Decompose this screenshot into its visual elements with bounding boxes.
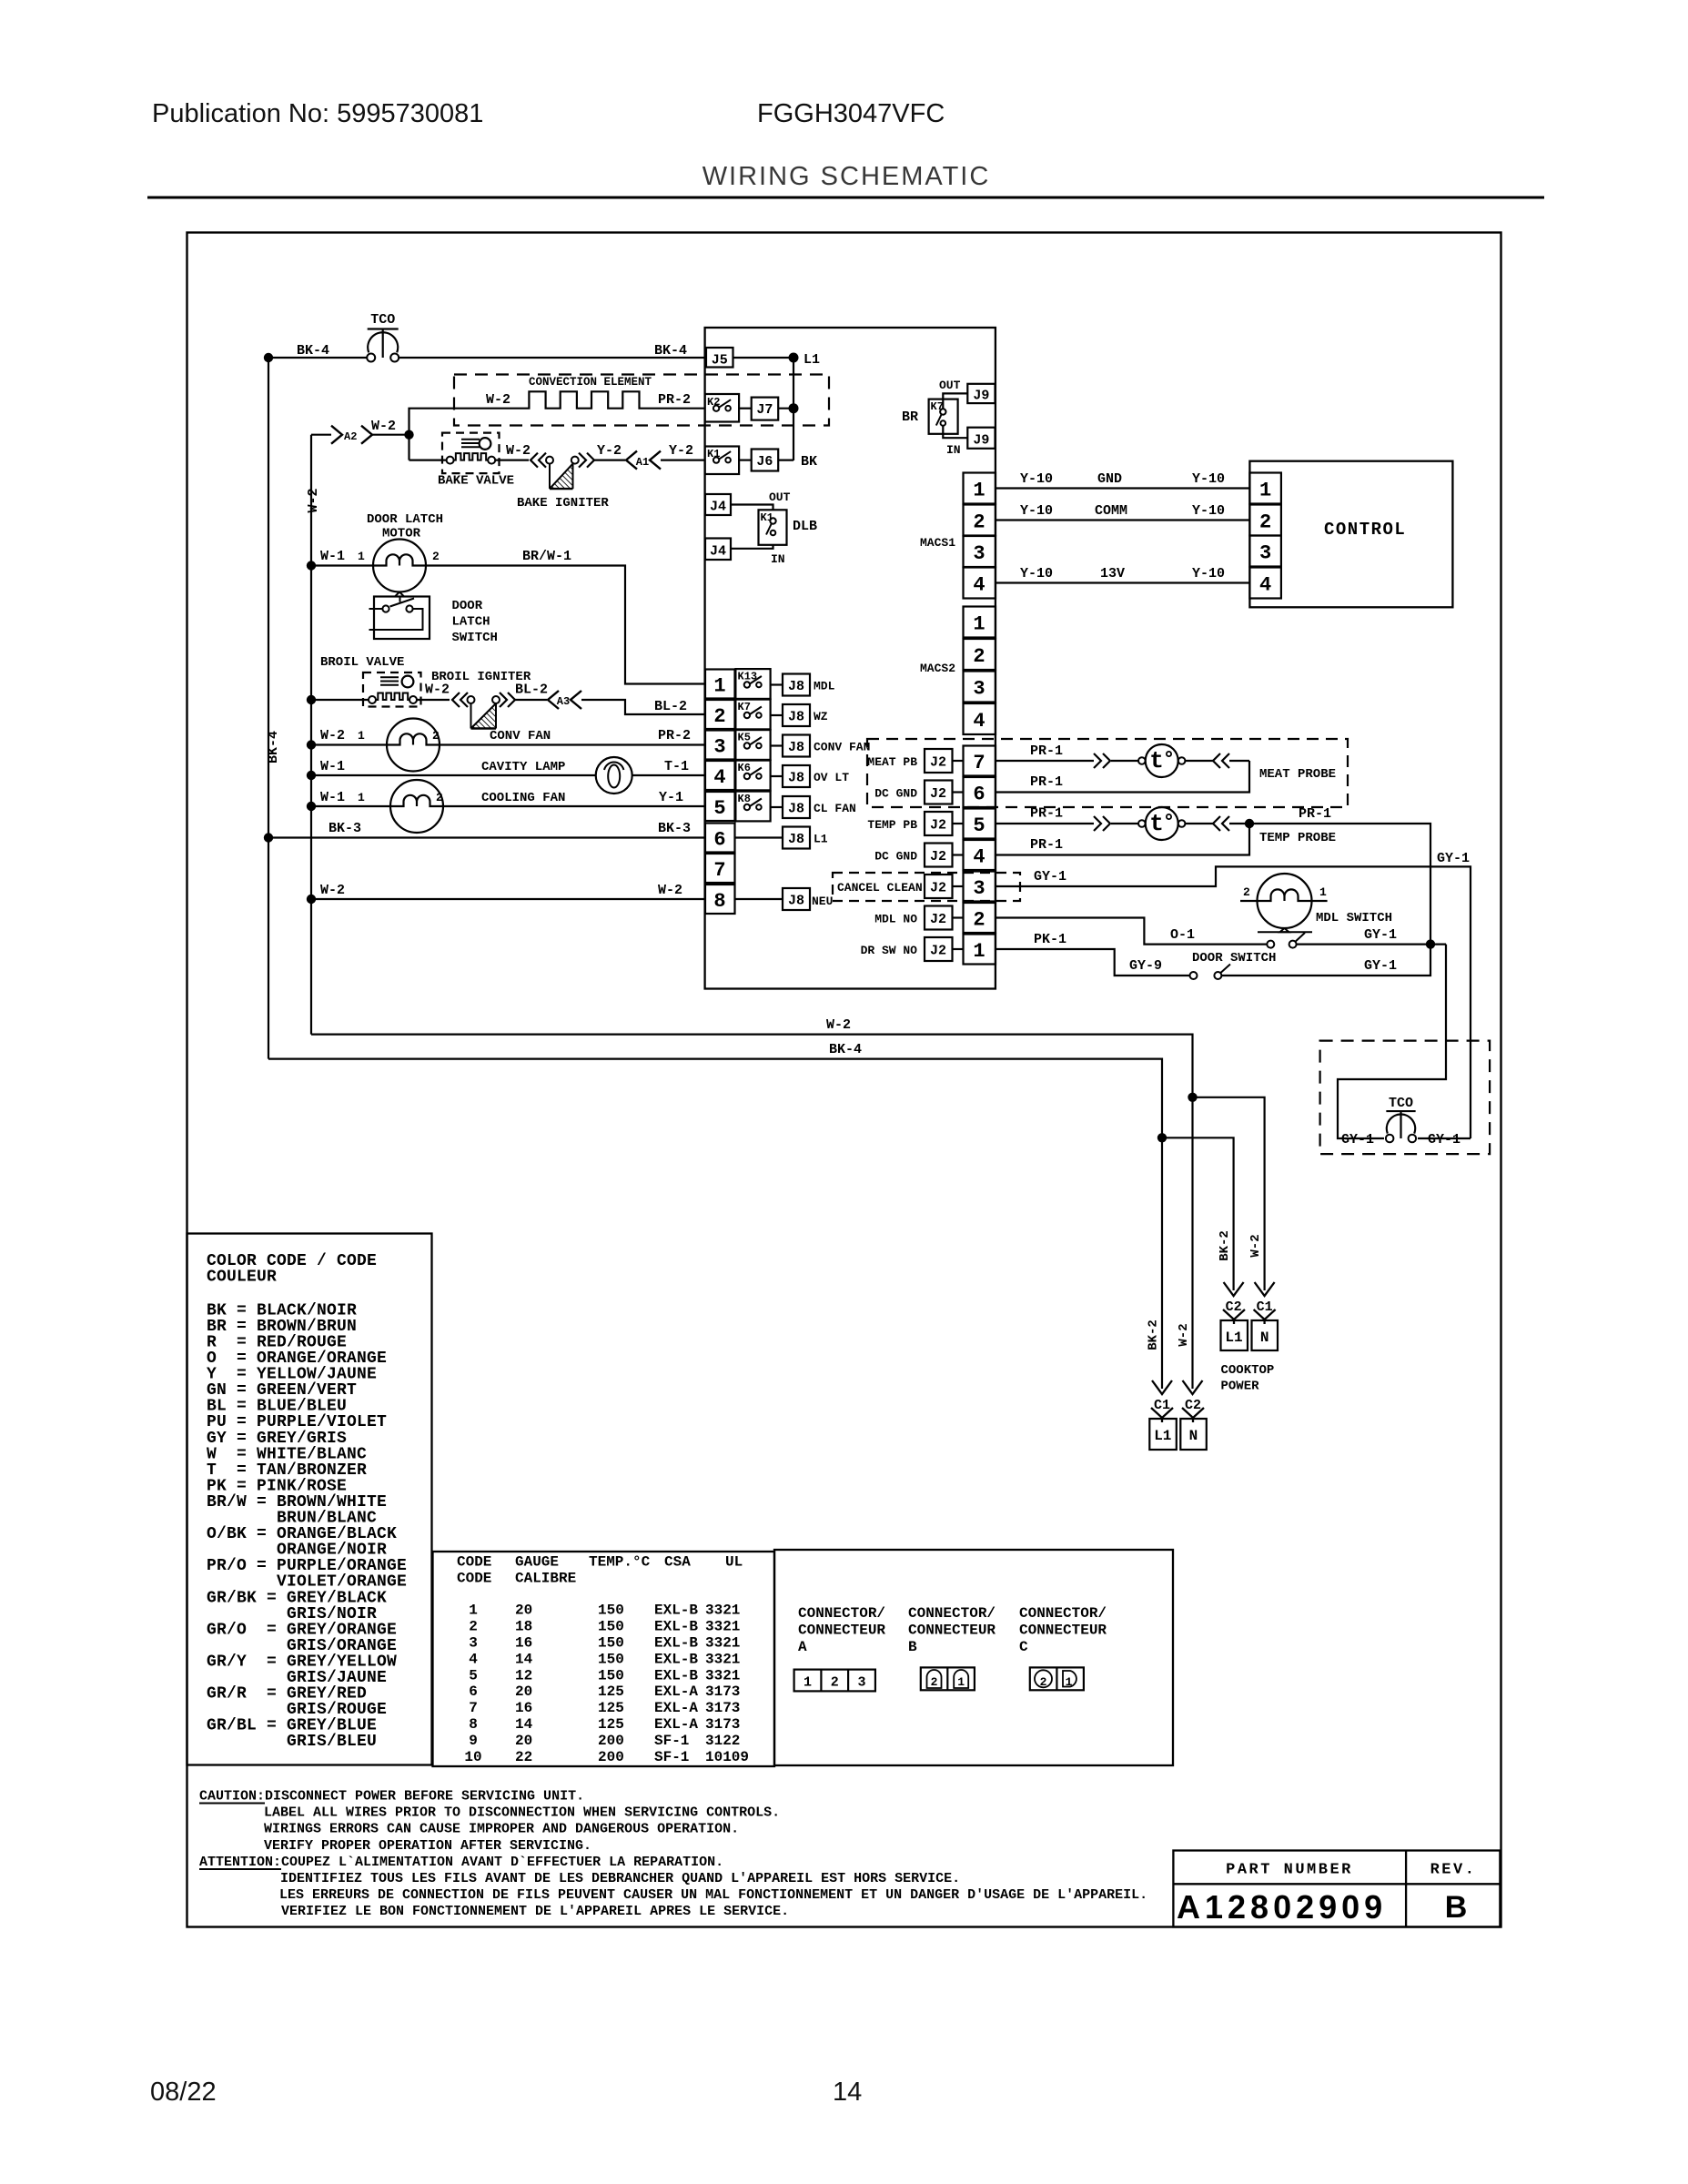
wire BK-2 to lower L1 (C1) xyxy=(1161,1137,1163,1389)
relay contact K8 xyxy=(735,792,770,822)
svg-text:L1: L1 xyxy=(1225,1330,1242,1346)
svg-text:1: 1 xyxy=(358,550,365,563)
svg-text:GY-1: GY-1 xyxy=(1341,1132,1374,1148)
svg-text:BK: BK xyxy=(801,454,817,470)
svg-text:150: 150 xyxy=(598,1603,624,1619)
svg-text:125: 125 xyxy=(598,1716,624,1733)
svg-text:REV.: REV. xyxy=(1430,1862,1477,1879)
svg-text:K6: K6 xyxy=(738,762,751,774)
svg-text:08/22: 08/22 xyxy=(150,2078,217,2107)
svg-text:L1: L1 xyxy=(814,833,828,846)
connector panel box xyxy=(774,1550,1173,1765)
svg-text:Y-10: Y-10 xyxy=(1020,566,1053,581)
svg-text:DC GND: DC GND xyxy=(874,787,917,801)
svg-text:A12802909: A12802909 xyxy=(1177,1888,1387,1926)
svg-text:2: 2 xyxy=(831,1675,839,1691)
wire bus W-2 vertical xyxy=(310,435,312,1035)
svg-text:CONNECTEUR: CONNECTEUR xyxy=(908,1623,996,1639)
svg-text:CODE: CODE xyxy=(457,1571,491,1587)
wire BL-2 igniter to A3 xyxy=(515,699,547,701)
svg-text:W-2: W-2 xyxy=(506,443,531,459)
svg-text:LES ERREURS DE CONNECTION DE F: LES ERREURS DE CONNECTION DE FILS PEUVEN… xyxy=(279,1887,1147,1903)
svg-text:Y-2: Y-2 xyxy=(669,443,693,459)
svg-text:EXL-B: EXL-B xyxy=(654,1651,698,1667)
svg-text:N: N xyxy=(1260,1330,1269,1346)
junction dot temp probe xyxy=(1245,819,1254,828)
svg-text:BAKE VALVE: BAKE VALVE xyxy=(438,474,514,489)
svg-text:150: 150 xyxy=(598,1635,624,1652)
connector J8 row 1 xyxy=(771,674,810,696)
svg-text:COMM: COMM xyxy=(1095,503,1127,519)
board pin column 7-1 (right) xyxy=(964,746,996,965)
svg-text:1: 1 xyxy=(973,480,985,502)
svg-text:J8: J8 xyxy=(788,802,804,817)
svg-text:4: 4 xyxy=(469,1651,478,1667)
svg-text:N: N xyxy=(1189,1428,1198,1444)
wire K2 to J7 xyxy=(739,408,752,409)
wire J7 to L1 bus xyxy=(778,408,793,409)
wire W-1 to cooling fan xyxy=(311,805,390,807)
svg-text:5: 5 xyxy=(713,797,725,820)
svg-text:W-2: W-2 xyxy=(1248,1234,1263,1257)
wire W-1 to cavity lamp xyxy=(311,774,596,776)
svg-text:CSA: CSA xyxy=(664,1554,691,1571)
svg-text:POWER: POWER xyxy=(1221,1380,1260,1394)
svg-text:6: 6 xyxy=(713,829,725,852)
svg-text:8: 8 xyxy=(469,1716,478,1733)
svg-text:5: 5 xyxy=(469,1667,478,1683)
wire BK-4 from node to TCO xyxy=(268,357,368,359)
gauge table rows xyxy=(464,1603,749,1765)
svg-text:GND: GND xyxy=(1097,471,1122,487)
svg-text:GY-1: GY-1 xyxy=(1437,851,1470,866)
connector J5 xyxy=(706,348,733,368)
broil valve (dashed) xyxy=(363,672,421,707)
MDL switch mechanical link xyxy=(1258,931,1312,933)
relay contact K5 xyxy=(735,730,770,760)
svg-text:3122: 3122 xyxy=(705,1733,740,1749)
svg-text:CONTROL: CONTROL xyxy=(1324,520,1406,540)
svg-text:BK-3: BK-3 xyxy=(658,821,691,836)
svg-text:J7: J7 xyxy=(756,402,773,418)
wire K7 to J9 out xyxy=(943,393,967,409)
svg-text:J2: J2 xyxy=(930,786,946,802)
svg-text:J8: J8 xyxy=(788,771,804,786)
svg-text:20: 20 xyxy=(515,1733,532,1749)
svg-text:MACS2: MACS2 xyxy=(920,662,955,675)
svg-text:J4: J4 xyxy=(710,544,726,560)
MDL switch motor xyxy=(1240,874,1328,928)
relay contact K1 xyxy=(705,447,740,475)
svg-text:3: 3 xyxy=(973,542,985,565)
svg-text:K7: K7 xyxy=(738,701,751,713)
wire GY-1 door switch to junction xyxy=(1221,945,1430,976)
connector pair broil igniter (male) xyxy=(492,696,500,703)
svg-text:1: 1 xyxy=(1066,1675,1073,1689)
svg-text:W-2: W-2 xyxy=(826,1017,851,1033)
wire J4 to DLB relay xyxy=(731,505,773,511)
MDL switch contact xyxy=(1267,941,1274,948)
color code box xyxy=(187,1234,432,1765)
connector J8 row 8 xyxy=(735,888,811,910)
svg-text:EXL-B: EXL-B xyxy=(654,1667,698,1683)
svg-text:3321: 3321 xyxy=(705,1651,740,1667)
svg-text:Y-10: Y-10 xyxy=(1020,503,1053,519)
bake valve element xyxy=(447,457,454,464)
svg-text:CONV FAN: CONV FAN xyxy=(490,729,551,743)
svg-text:W-2: W-2 xyxy=(486,392,510,408)
svg-text:150: 150 xyxy=(598,1619,624,1635)
svg-text:4: 4 xyxy=(713,766,725,789)
svg-text:PR-1: PR-1 xyxy=(1299,806,1331,822)
svg-text:TCO: TCO xyxy=(370,312,395,328)
svg-text:4: 4 xyxy=(973,846,985,869)
svg-text:MDL SWITCH: MDL SWITCH xyxy=(1316,911,1392,925)
junction dot W-2 bake node xyxy=(404,430,413,440)
svg-text:B: B xyxy=(1445,1890,1468,1925)
svg-text:K5: K5 xyxy=(738,732,751,744)
connector J8 row 4 xyxy=(771,765,810,787)
connector pair at bake igniter (female) xyxy=(531,453,538,468)
svg-text:PR-1: PR-1 xyxy=(1030,806,1063,822)
connector J2 row 4 xyxy=(925,844,964,867)
svg-text:DOOR: DOOR xyxy=(452,599,483,613)
wire Y-10 COMM xyxy=(996,519,1249,521)
svg-text:BK-3: BK-3 xyxy=(329,821,361,836)
svg-text:TCO: TCO xyxy=(1389,1096,1413,1111)
svg-text:VERIFIEZ LE BON FONCTIONNEMENT: VERIFIEZ LE BON FONCTIONNEMENT DE L'APPA… xyxy=(281,1904,789,1919)
junction dot W bus / door latch xyxy=(307,561,316,570)
svg-text:J8: J8 xyxy=(788,740,804,755)
wire GY-1 junction to TCO left xyxy=(1338,945,1446,1138)
svg-text:C1: C1 xyxy=(1257,1299,1273,1315)
svg-text:20: 20 xyxy=(515,1683,532,1700)
svg-text:J4: J4 xyxy=(710,500,726,515)
wire gauge table box xyxy=(433,1552,775,1766)
mechanical link motor to switch xyxy=(395,592,404,597)
svg-text:CODE: CODE xyxy=(457,1554,491,1571)
svg-text:Y-10: Y-10 xyxy=(1192,471,1225,487)
svg-text:A1: A1 xyxy=(636,456,649,469)
svg-text:BK-2: BK-2 xyxy=(1218,1230,1232,1261)
svg-text:125: 125 xyxy=(598,1700,624,1716)
wire bake valve to igniter W-2 xyxy=(495,460,529,461)
cavity lamp xyxy=(596,757,632,794)
svg-text:W-1: W-1 xyxy=(320,790,345,805)
svg-text:2: 2 xyxy=(1259,511,1271,534)
svg-text:BK-2: BK-2 xyxy=(1147,1319,1161,1350)
connector J9 (in) xyxy=(967,428,995,449)
connector J2 row 5 xyxy=(925,812,964,835)
off-page connector A1 xyxy=(626,451,637,470)
svg-text:BL-2: BL-2 xyxy=(654,699,687,714)
svg-text:1: 1 xyxy=(469,1603,478,1619)
svg-text:7: 7 xyxy=(713,859,725,882)
svg-text:14: 14 xyxy=(833,2078,862,2107)
svg-text:J6: J6 xyxy=(756,454,773,470)
svg-text:4: 4 xyxy=(973,574,985,597)
svg-text:J9: J9 xyxy=(973,433,989,449)
svg-text:8: 8 xyxy=(713,890,725,913)
svg-text:BR/W-1: BR/W-1 xyxy=(522,549,571,564)
svg-text:Y-10: Y-10 xyxy=(1192,503,1225,519)
meat probe enclosure (dashed) xyxy=(867,739,1348,807)
svg-text:125: 125 xyxy=(598,1683,624,1700)
svg-text:MOTOR: MOTOR xyxy=(382,527,421,541)
svg-text:3: 3 xyxy=(1259,542,1271,565)
convection element enclosure (dashed) xyxy=(454,375,829,426)
svg-text:GY-1: GY-1 xyxy=(1364,958,1397,974)
wire bake node down to bake valve xyxy=(408,435,409,460)
door latch motor M1 xyxy=(373,540,426,592)
svg-text:T-1: T-1 xyxy=(664,759,689,774)
junction dot W bus / cavity lamp xyxy=(307,771,316,780)
svg-text:16: 16 xyxy=(515,1635,532,1652)
board pin column 1-8 (left) xyxy=(705,670,735,915)
svg-text:Y-10: Y-10 xyxy=(1020,471,1053,487)
svg-text:10: 10 xyxy=(464,1749,481,1765)
svg-text:2: 2 xyxy=(973,511,985,534)
svg-text:EXL-B: EXL-B xyxy=(654,1635,698,1652)
svg-text:SF-1: SF-1 xyxy=(654,1749,689,1765)
svg-text:CONNECTEUR: CONNECTEUR xyxy=(1019,1623,1107,1639)
relay contact K7 xyxy=(735,700,770,730)
svg-text:5: 5 xyxy=(973,814,985,837)
svg-text:MDL NO: MDL NO xyxy=(874,913,917,926)
junction dot W bus / conv fan xyxy=(307,740,316,749)
wire BK-4 long run to cooktop xyxy=(268,1059,1162,1138)
svg-text:3: 3 xyxy=(469,1635,478,1652)
svg-text:J8: J8 xyxy=(788,710,804,725)
svg-text:L1: L1 xyxy=(1154,1428,1171,1444)
svg-text:OUT: OUT xyxy=(769,490,791,504)
svg-text:2: 2 xyxy=(432,550,440,563)
svg-text:J8: J8 xyxy=(788,832,804,847)
svg-text:DLB: DLB xyxy=(793,519,817,534)
wire W-1 to door latch motor xyxy=(311,564,373,566)
svg-text:C1: C1 xyxy=(1154,1398,1170,1413)
svg-text:150: 150 xyxy=(598,1667,624,1683)
svg-text:PART NUMBER: PART NUMBER xyxy=(1226,1862,1353,1879)
wire broil valve to igniter W-2 xyxy=(417,699,450,701)
svg-text:MACS1: MACS1 xyxy=(920,536,955,550)
svg-text:t: t xyxy=(1149,747,1164,774)
svg-text:DOOR SWITCH: DOOR SWITCH xyxy=(1192,951,1276,966)
svg-text:1: 1 xyxy=(1259,480,1271,502)
svg-text:TEMP.°C: TEMP.°C xyxy=(589,1554,651,1571)
svg-text:CONVECTION ELEMENT: CONVECTION ELEMENT xyxy=(529,376,652,389)
wire BK-2 to cooktop L1 (C2) xyxy=(1162,1137,1234,1290)
connector J2 row 6 xyxy=(925,781,964,804)
svg-text:20: 20 xyxy=(515,1603,532,1619)
svg-text:3: 3 xyxy=(857,1675,865,1691)
svg-text:MEAT PROBE: MEAT PROBE xyxy=(1259,767,1336,782)
junction dot BK-2 cooktop split xyxy=(1157,1133,1167,1142)
connector J2 row 3 xyxy=(925,875,964,898)
relay contact K1 (DLB) xyxy=(759,510,787,545)
svg-text:MDL: MDL xyxy=(814,680,835,693)
svg-text:WIRING SCHEMATIC: WIRING SCHEMATIC xyxy=(702,162,991,191)
svg-text:2: 2 xyxy=(1040,1675,1047,1689)
cooling fan motor xyxy=(390,780,443,833)
svg-text:OUT: OUT xyxy=(939,379,961,392)
svg-text:WIRINGS ERRORS CAN CAUSE IMPRO: WIRINGS ERRORS CAN CAUSE IMPROPER AND DA… xyxy=(264,1822,739,1837)
svg-text:PR-1: PR-1 xyxy=(1030,743,1063,759)
svg-text:COOKTOP: COOKTOP xyxy=(1221,1363,1275,1378)
svg-text:C2: C2 xyxy=(1185,1398,1201,1413)
wire T-1 lamp to board pin 4 xyxy=(632,774,705,776)
thermal cutout TCO (lower) xyxy=(1386,1111,1416,1142)
terminal N cooktop xyxy=(1254,1309,1276,1319)
svg-text:W-2: W-2 xyxy=(371,419,396,434)
wire W-2 to conv fan xyxy=(311,743,387,745)
svg-text:2: 2 xyxy=(1243,885,1250,899)
svg-text:GY-1: GY-1 xyxy=(1428,1132,1461,1148)
svg-text:W-2: W-2 xyxy=(306,488,321,512)
node L1 xyxy=(789,353,799,363)
schematic border frame xyxy=(187,233,1501,1927)
svg-text:18: 18 xyxy=(515,1619,532,1635)
svg-text:BK-4: BK-4 xyxy=(297,343,329,359)
svg-text:2: 2 xyxy=(973,909,985,932)
svg-text:4: 4 xyxy=(973,710,985,733)
svg-text:O-1: O-1 xyxy=(1170,927,1195,943)
wire convection left lead W-2 xyxy=(409,409,527,435)
connector MACS1 pins 1-4 xyxy=(964,473,996,599)
svg-text:CONNECTOR/: CONNECTOR/ xyxy=(798,1605,885,1622)
svg-text:J2: J2 xyxy=(930,912,946,927)
wire BL-2 A3 to board pin 2 xyxy=(581,700,705,714)
connector J8 row 5 xyxy=(771,796,810,818)
caution notice text xyxy=(199,1789,1147,1920)
svg-text:A: A xyxy=(798,1639,807,1655)
svg-text:3: 3 xyxy=(973,678,985,701)
relay contact K7 (BR) xyxy=(929,399,958,434)
svg-text:EXL-A: EXL-A xyxy=(654,1716,698,1733)
svg-text:VERIFY PROPER OPERATION AFTER: VERIFY PROPER OPERATION AFTER SERVICING. xyxy=(264,1838,591,1854)
junction dot J7/L1 bus xyxy=(789,403,799,413)
connector J2 row 2 xyxy=(925,906,964,930)
wire PR-2 conv fan to board pin 3 xyxy=(440,743,705,745)
connector A pins xyxy=(794,1670,875,1692)
svg-text:TEMP PB: TEMP PB xyxy=(867,818,917,832)
svg-text:9: 9 xyxy=(469,1733,478,1749)
thermal cutout enclosure (dashed) xyxy=(1320,1041,1491,1155)
svg-text:SF-1: SF-1 xyxy=(654,1733,689,1749)
svg-text:3173: 3173 xyxy=(705,1700,740,1716)
svg-text:L1: L1 xyxy=(804,352,820,368)
svg-text:GY-1: GY-1 xyxy=(1034,869,1066,885)
wire Y-2 igniter to A1 xyxy=(594,460,625,461)
wire W-2 to cooktop N (C1) xyxy=(1193,1097,1265,1290)
svg-text:OV LT: OV LT xyxy=(814,771,849,784)
svg-text:3: 3 xyxy=(713,736,725,759)
svg-text:K8: K8 xyxy=(738,793,751,805)
connector MACS2 pins 1-4 xyxy=(964,607,996,735)
title rule xyxy=(147,197,1544,199)
off-page connector A2 xyxy=(311,434,331,436)
svg-text:BK-4: BK-4 xyxy=(654,343,687,359)
wire element to K2 xyxy=(642,408,705,409)
svg-text:10109: 10109 xyxy=(705,1749,749,1765)
wire A2 to bake node xyxy=(371,434,409,436)
svg-text:J5: J5 xyxy=(712,353,728,369)
svg-text:1: 1 xyxy=(973,613,985,636)
connector J2 row 7 xyxy=(925,749,964,773)
svg-text:C: C xyxy=(1019,1639,1028,1655)
terminal N lower xyxy=(1182,1408,1204,1418)
svg-text:6: 6 xyxy=(469,1683,478,1700)
svg-text:CONNECTOR/: CONNECTOR/ xyxy=(1019,1605,1107,1622)
svg-text:2: 2 xyxy=(469,1619,478,1635)
wire PK-1 DR SW NO to door switch xyxy=(996,949,1190,976)
connector J4 (out) xyxy=(705,494,731,515)
svg-text:NEU: NEU xyxy=(812,895,833,908)
svg-text:3321: 3321 xyxy=(705,1635,740,1652)
svg-text:CAUTION:DISCONNECT POWER BEFOR: CAUTION:DISCONNECT POWER BEFORE SERVICIN… xyxy=(199,1789,584,1805)
svg-text:1: 1 xyxy=(713,675,725,698)
svg-text:7: 7 xyxy=(973,752,985,774)
junction dot W bus / cooling fan xyxy=(307,802,316,811)
svg-text:TEMP PROBE: TEMP PROBE xyxy=(1259,831,1336,845)
connector J8 row 3 xyxy=(771,735,810,757)
wire BK-3 to board pin 6 xyxy=(268,836,705,838)
svg-text:B: B xyxy=(908,1639,917,1655)
svg-text:EXL-A: EXL-A xyxy=(654,1683,698,1700)
part number table xyxy=(1173,1851,1500,1927)
terminal L1 lower xyxy=(1151,1408,1173,1418)
wire W-2 to lower N (C2) xyxy=(1191,1097,1193,1389)
svg-text:CAVITY LAMP: CAVITY LAMP xyxy=(481,760,565,774)
svg-text:IN: IN xyxy=(771,552,785,566)
svg-text:GY-1: GY-1 xyxy=(1364,927,1397,943)
svg-text:3: 3 xyxy=(973,877,985,900)
svg-text:J2: J2 xyxy=(930,755,946,771)
wire J5 to L1 xyxy=(733,357,794,359)
svg-text:Y-2: Y-2 xyxy=(597,443,622,459)
svg-text:CONV FAN: CONV FAN xyxy=(814,741,870,754)
svg-text:PR-1: PR-1 xyxy=(1030,774,1063,790)
svg-text:CONNECTOR/: CONNECTOR/ xyxy=(908,1605,996,1622)
off-page connector A3 xyxy=(548,691,559,709)
svg-text:COULEUR: COULEUR xyxy=(207,1269,277,1287)
svg-text:W-2: W-2 xyxy=(658,883,682,898)
svg-text:W-2: W-2 xyxy=(1177,1323,1191,1346)
controller CONTROL box xyxy=(1249,461,1452,608)
svg-text:3321: 3321 xyxy=(705,1603,740,1619)
svg-text:J8: J8 xyxy=(788,894,804,909)
svg-text:3173: 3173 xyxy=(705,1716,740,1733)
wire K1 to J6 xyxy=(739,460,752,461)
svg-text:J8: J8 xyxy=(788,679,804,694)
junction dot BK-4 bus / BK-3 xyxy=(264,833,273,842)
svg-text:PR-1: PR-1 xyxy=(1030,837,1063,853)
control pins 1-4 xyxy=(1249,473,1281,599)
svg-text:ATTENTION:COUPEZ L`ALIMENTATIO: ATTENTION:COUPEZ L`ALIMENTATION AVANT D`… xyxy=(199,1855,723,1870)
svg-text:Y-10: Y-10 xyxy=(1192,566,1225,581)
bake valve (dashed) xyxy=(442,433,500,473)
connector J8 row 2 xyxy=(771,704,810,726)
svg-text:PR-2: PR-2 xyxy=(658,392,691,408)
relay contact K6 xyxy=(735,761,770,791)
wire J6 to L1 bus / node BK xyxy=(778,460,793,461)
svg-text:J2: J2 xyxy=(930,881,946,896)
wire W-2 to broil valve xyxy=(311,699,369,701)
svg-text:PK-1: PK-1 xyxy=(1034,932,1066,947)
svg-text:16: 16 xyxy=(515,1700,532,1716)
connector J6 xyxy=(752,450,779,471)
thermal cutout TCO (top) xyxy=(367,329,399,362)
